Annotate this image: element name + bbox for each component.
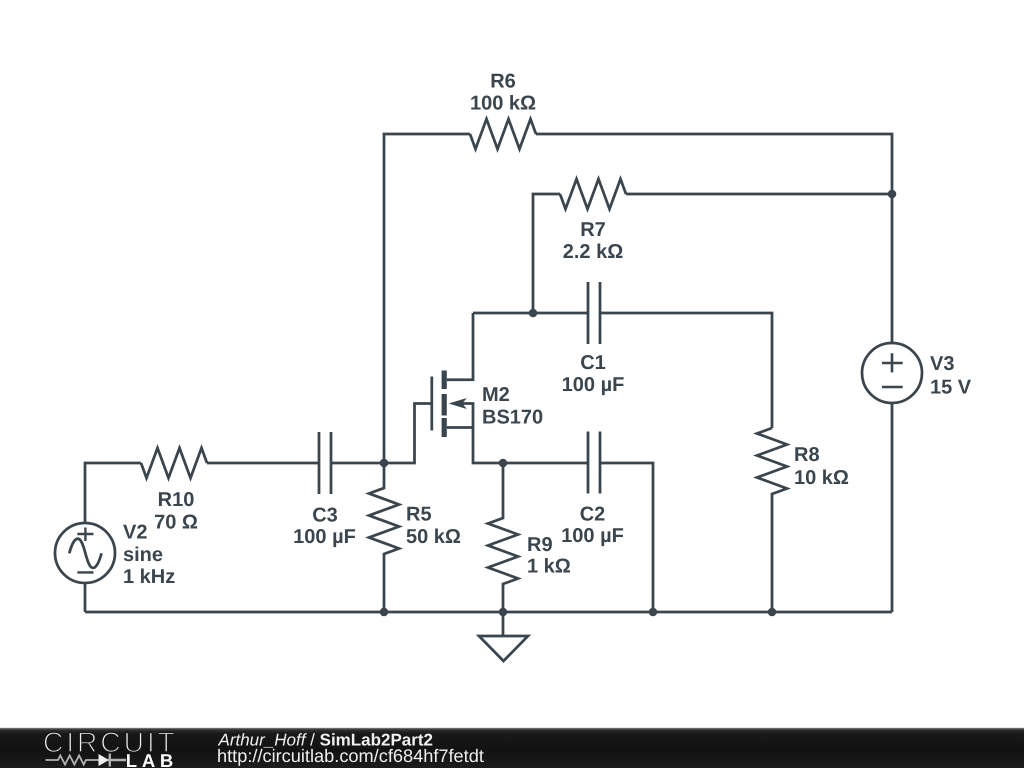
svg-text:R6: R6 bbox=[490, 71, 516, 93]
voltage source V2 circle bbox=[55, 523, 115, 583]
svg-text:70 Ω: 70 Ω bbox=[154, 511, 198, 533]
node dot R5/R6 junction bbox=[380, 459, 389, 468]
svg-text:C1: C1 bbox=[580, 352, 606, 374]
svg-text:2.2 kΩ: 2.2 kΩ bbox=[563, 241, 624, 263]
wire V2 bottom lead bbox=[84, 583, 87, 612]
resistor R7 bbox=[560, 179, 626, 209]
wire R7 left riser bbox=[533, 194, 560, 313]
logo diode wire bbox=[108, 754, 126, 767]
wire node A up left branch of R6 bbox=[384, 134, 470, 463]
svg-text:1 kΩ: 1 kΩ bbox=[527, 556, 571, 578]
transistor M2 gate line bbox=[430, 377, 433, 431]
wire R6 to V3 top bbox=[536, 134, 892, 343]
svg-text:BS170: BS170 bbox=[482, 407, 543, 429]
resistor R9 bbox=[488, 463, 518, 612]
node dot C2 bottom bbox=[649, 608, 658, 617]
transistor M2 drain lead bbox=[447, 313, 473, 380]
node dot ground junction bbox=[499, 608, 508, 617]
svg-text:10 kΩ: 10 kΩ bbox=[794, 467, 849, 489]
voltage source V3 circle bbox=[862, 343, 922, 403]
resistor R5 bbox=[369, 463, 399, 612]
wire C3 to node A and gate riser bbox=[331, 404, 432, 464]
wire R7 to V3 node bbox=[626, 193, 892, 196]
svg-text:R7: R7 bbox=[580, 219, 606, 241]
wire V3 bottom lead bbox=[891, 403, 894, 612]
node dot R8 bottom bbox=[768, 608, 777, 617]
svg-text:V3: V3 bbox=[930, 353, 954, 375]
node dot R7/V3 junction bbox=[888, 190, 897, 199]
wire bottom ground rail bbox=[85, 611, 892, 614]
svg-text:M2: M2 bbox=[482, 384, 510, 406]
wire drain rail to C1 bbox=[473, 312, 588, 315]
V3 plus sign bbox=[882, 353, 903, 372]
svg-text:R9: R9 bbox=[527, 534, 553, 556]
logo diode triangle bbox=[99, 754, 110, 766]
V2 minus sign bbox=[77, 571, 93, 573]
svg-text:C2: C2 bbox=[580, 504, 606, 526]
svg-text:http://circuitlab.com/cf684hf7: http://circuitlab.com/cf684hf7fetdt bbox=[217, 746, 484, 766]
V2 sine wave bbox=[69, 539, 101, 568]
transistor M2 body lead bbox=[458, 404, 473, 428]
svg-text:15 V: 15 V bbox=[930, 377, 972, 399]
resistor R6 bbox=[470, 119, 536, 149]
svg-text:R5: R5 bbox=[406, 504, 432, 526]
capacitor C3 bbox=[319, 432, 331, 494]
V3 minus sign bbox=[882, 386, 903, 389]
wire C2 right to ground rail bbox=[600, 463, 653, 612]
svg-text:R8: R8 bbox=[794, 444, 820, 466]
wire R10 to C3 bbox=[207, 462, 319, 465]
wire V2 top lead to signal rail bbox=[85, 463, 141, 523]
svg-text:LAB: LAB bbox=[126, 750, 174, 768]
svg-text:100 µF: 100 µF bbox=[562, 374, 625, 396]
svg-text:100 µF: 100 µF bbox=[561, 525, 624, 547]
svg-text:V2: V2 bbox=[123, 522, 147, 544]
node dot R7/C1 junction bbox=[529, 309, 538, 318]
transistor M2 body arrow bbox=[449, 398, 467, 409]
footer bar bbox=[0, 728, 1024, 768]
ground stem bbox=[502, 612, 505, 636]
svg-text:100 µF: 100 µF bbox=[293, 526, 356, 548]
svg-text:R10: R10 bbox=[158, 489, 195, 511]
svg-text:50 kΩ: 50 kΩ bbox=[406, 526, 461, 548]
resistor R10 bbox=[141, 448, 207, 478]
transistor M2 source lead bbox=[447, 428, 588, 464]
ground triangle bbox=[479, 636, 528, 661]
svg-text:C3: C3 bbox=[312, 505, 338, 527]
svg-text:1 kHz: 1 kHz bbox=[123, 566, 175, 588]
V2 plus sign bbox=[77, 528, 93, 542]
svg-text:sine: sine bbox=[123, 544, 163, 566]
node dot R9 top junction bbox=[499, 459, 508, 468]
wire C1 to R8 top bbox=[600, 313, 772, 428]
svg-text:100 kΩ: 100 kΩ bbox=[470, 93, 536, 115]
capacitor C2 bbox=[588, 432, 600, 494]
resistor R8 bbox=[757, 428, 787, 612]
transistor M2 channel bars bbox=[442, 371, 447, 438]
logo resistor zigzag bbox=[46, 756, 100, 765]
capacitor C1 bbox=[588, 282, 600, 344]
node dot R5 bottom bbox=[380, 608, 389, 617]
